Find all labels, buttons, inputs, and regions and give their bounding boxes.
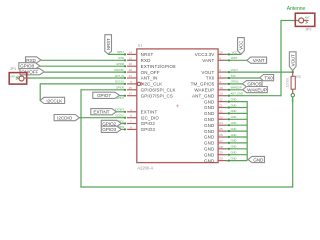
wire net GPIO2 — [121, 123, 125, 125]
svg-text:GND: GND — [204, 105, 215, 110]
svg-text:ANT_GND: ANT_GND — [192, 93, 215, 98]
svg-text:20: 20 — [219, 50, 223, 54]
pin GND (pin 22) — [218, 112, 226, 114]
svg-text:ANT_GND: ANT_GND — [231, 92, 244, 96]
wire GND pin row 1 — [226, 101, 247, 103]
svg-text:19: 19 — [219, 86, 223, 90]
pin GND (pin 26) — [218, 136, 226, 138]
pin GND (pin 25) — [218, 130, 226, 132]
svg-text:7: 7 — [130, 120, 132, 124]
svg-text:21: 21 — [219, 104, 223, 108]
pin GND (pin 23) — [218, 118, 226, 120]
junction dot — [228, 118, 230, 120]
wire net ANT vertical below R2 — [292, 97, 294, 188]
wire net WAKEUP — [226, 89, 243, 91]
junction dot — [124, 77, 126, 79]
wire net GPIO3 — [121, 128, 125, 130]
svg-text:WAKEUP: WAKEUP — [231, 86, 242, 90]
svg-text:GND: GND — [204, 129, 215, 134]
connector JP2 — [295, 13, 315, 26]
net label flag GPIO2 — [101, 120, 121, 126]
junction dot — [124, 53, 126, 55]
junction dot — [228, 89, 230, 91]
pin GND (pin 27) — [218, 142, 226, 144]
wire GND pin row 9 — [226, 148, 247, 150]
svg-text:GND: GND — [231, 156, 237, 160]
svg-text:2: 2 — [219, 68, 221, 72]
junction dot — [124, 65, 126, 67]
svg-text:GPIO7: GPIO7 — [97, 93, 111, 98]
junction dot — [228, 77, 230, 79]
pin NRST (pin 14) — [127, 53, 137, 55]
svg-text:GND: GND — [231, 151, 237, 155]
svg-text:GND: GND — [204, 123, 215, 128]
svg-text:TX0: TX0 — [231, 74, 236, 78]
svg-text:15: 15 — [128, 86, 132, 90]
net label flag I2CDIO — [54, 115, 79, 121]
svg-text:GND: GND — [231, 139, 237, 143]
junction dot — [228, 136, 230, 138]
net label flag NRST (vertical) — [105, 35, 112, 54]
junction dot — [228, 53, 230, 55]
svg-text:VOUT: VOUT — [290, 54, 295, 66]
svg-text:1: 1 — [219, 74, 221, 78]
net label flag ON/OFF — [20, 69, 44, 75]
pin GPIO6/SPI_CLK (pin 15) — [127, 89, 137, 91]
pin RXD (pin 13) — [127, 59, 137, 61]
IC U1 A2200-A GPS module body — [137, 49, 218, 163]
I2C_CLK pin clock dot — [137, 82, 140, 85]
wire net GPIO5 — [226, 83, 242, 85]
resistor R2 top stub — [292, 73, 294, 77]
wire net EXTINT — [116, 111, 125, 113]
svg-text:GPIO8: GPIO8 — [116, 62, 124, 66]
svg-text:VCC: VCC — [239, 40, 244, 50]
wire net GPIO7 — [120, 95, 126, 97]
pin TM_GPIO5 (pin 3) — [218, 83, 226, 85]
resistor R2 bottom stub — [292, 89, 294, 93]
svg-text:RXD: RXD — [26, 58, 36, 63]
net label flag TX0 — [260, 75, 274, 81]
svg-text:GPIO7/SPI_CS: GPIO7/SPI_CS — [141, 93, 173, 98]
IC origin cross — [176, 104, 179, 107]
net label flag I2CCLK — [40, 97, 64, 103]
svg-text:14: 14 — [128, 50, 132, 54]
svg-text:26: 26 — [219, 133, 223, 137]
net label flag WAKEUP — [243, 87, 268, 93]
svg-text:9: 9 — [219, 56, 221, 60]
JP1 pin 1 circle — [19, 76, 24, 81]
junction dot — [228, 59, 230, 61]
junction dot — [124, 83, 126, 85]
wire net ON/OFF — [44, 71, 125, 73]
svg-text:GND: GND — [253, 157, 264, 162]
svg-text:10000: 10000 — [286, 78, 290, 88]
pin VCC3.3V (pin 20) — [218, 53, 226, 55]
svg-text:WAKEUP: WAKEUP — [247, 88, 267, 93]
svg-text:I2C_DIO: I2C_DIO — [141, 115, 160, 120]
svg-text:R2: R2 — [296, 75, 301, 79]
svg-text:23: 23 — [219, 115, 223, 119]
pin I2C_CLK (pin 5) — [127, 83, 137, 85]
svg-text:EXTINT2/GPIO8: EXTINT2/GPIO8 — [141, 64, 176, 69]
svg-text:I2CDIO: I2CDIO — [115, 114, 124, 118]
svg-text:GND: GND — [231, 115, 237, 119]
pin GND (pin 30) — [218, 160, 226, 162]
svg-text:GND: GND — [204, 99, 215, 104]
pin GND (pin 21) — [218, 107, 226, 109]
svg-text:27: 27 — [219, 139, 223, 143]
junction dot — [228, 95, 230, 97]
svg-text:GND: GND — [204, 135, 215, 140]
svg-text:VOUT: VOUT — [231, 68, 239, 72]
svg-text:VANT: VANT — [231, 56, 238, 60]
net label flag GPIO7 — [93, 92, 120, 98]
wire net NRST — [108, 53, 125, 55]
svg-text:GND: GND — [231, 103, 237, 107]
svg-text:4: 4 — [130, 108, 132, 112]
svg-text:NRST: NRST — [106, 38, 111, 50]
svg-text:VCC: VCC — [232, 51, 238, 55]
wire net GPIO6 bottom horizontal — [80, 186, 292, 188]
wire net TX0 — [226, 77, 260, 79]
svg-text:TX0: TX0 — [206, 76, 215, 81]
svg-text:EXTINT: EXTINT — [115, 108, 125, 112]
svg-text:VANT: VANT — [202, 58, 214, 63]
junction dot — [228, 124, 230, 126]
net label flag RXD — [26, 57, 42, 63]
net label flag GPIO8 — [19, 63, 40, 69]
svg-text:GND: GND — [231, 127, 237, 131]
net label flag GND — [248, 156, 265, 162]
svg-text:VOUT: VOUT — [201, 70, 214, 75]
svg-text:I2CCLK: I2CCLK — [115, 80, 124, 84]
svg-text:GND: GND — [204, 117, 215, 122]
svg-text:22: 22 — [219, 109, 223, 113]
junction dot — [124, 111, 126, 113]
pin GPIO2 (pin 7) — [127, 123, 137, 125]
svg-text:GPIO6: GPIO6 — [116, 86, 124, 90]
wire net GPIO8 — [40, 65, 126, 67]
wire net GPIO6 vertical long — [80, 89, 82, 187]
pin GND (pin 24) — [218, 124, 226, 126]
junction dot — [228, 112, 230, 114]
svg-text:GND: GND — [231, 121, 237, 125]
wire GND bus vertical — [246, 101, 248, 161]
wire net VOUT — [226, 71, 293, 73]
svg-text:ON_OFF: ON_OFF — [141, 70, 160, 75]
junction dot — [228, 71, 230, 73]
junction dot — [228, 160, 230, 162]
svg-text:8: 8 — [130, 125, 132, 129]
svg-text:18: 18 — [128, 68, 132, 72]
pin TX0 (pin 1) — [218, 77, 226, 79]
junction circle R2 bottom — [291, 94, 294, 97]
pin I2C_DIO (pin 6) — [127, 117, 137, 119]
pin GND (pin 28) — [218, 148, 226, 150]
svg-text:U1: U1 — [138, 44, 143, 48]
wire net VCC — [226, 53, 241, 55]
svg-text:ANT: ANT — [305, 17, 310, 20]
wire GND pin row 6 — [226, 130, 247, 132]
pin GPIO7/SPI_CS (pin 17) — [127, 95, 137, 97]
wire GND pin row 5 — [226, 124, 247, 126]
svg-text:VANT: VANT — [253, 58, 265, 63]
net label flag VCC (vertical) — [238, 38, 245, 55]
svg-text:GPIO8: GPIO8 — [20, 64, 34, 69]
junction dot — [124, 59, 126, 61]
JP2 pin 1 circle — [299, 18, 304, 23]
svg-text:Antenne: Antenne — [287, 6, 306, 12]
svg-text:10: 10 — [219, 92, 223, 96]
junction dot — [124, 122, 126, 124]
pin VOUT (pin 2) — [218, 71, 226, 73]
junction dot — [124, 128, 126, 130]
svg-text:GND: GND — [231, 133, 237, 137]
svg-text:GND: GND — [204, 111, 215, 116]
pin ANT_IN (pin 11) — [127, 77, 137, 79]
pin EXTINT2/GPIO8 (pin 16) — [127, 65, 137, 67]
wire net GPIO6 horizontal to pin — [81, 89, 126, 91]
wire net ANT horizontal into JP2 — [280, 20, 298, 22]
svg-text:GND: GND — [204, 152, 215, 157]
svg-text:5: 5 — [130, 80, 132, 84]
wire GND pin row 3 — [226, 112, 247, 114]
svg-text:VCC3.3V: VCC3.3V — [195, 52, 215, 57]
junction dot — [124, 71, 126, 73]
svg-text:16: 16 — [128, 62, 132, 66]
junction dot VOUT/R2 — [292, 71, 294, 73]
net label flag GPIO3 — [101, 126, 121, 132]
svg-text:GND: GND — [204, 141, 215, 146]
xref chevron ANT_IN — [16, 77, 18, 80]
net label flag VANT — [247, 57, 267, 63]
svg-text:GPIO2: GPIO2 — [102, 121, 116, 126]
svg-text:6: 6 — [130, 114, 132, 118]
pin ANT_GND (pin 10) — [218, 95, 226, 97]
svg-text:GND: GND — [231, 109, 237, 113]
svg-text:GND: GND — [231, 145, 237, 149]
svg-text:JP2: JP2 — [305, 27, 312, 32]
wire GND pin row 8 — [226, 142, 247, 144]
svg-text:RXD: RXD — [119, 56, 125, 60]
svg-text:11: 11 — [129, 74, 132, 78]
svg-text:JP1: JP1 — [10, 66, 17, 71]
svg-text:12: 12 — [219, 98, 223, 102]
resistor R2 body — [291, 76, 295, 89]
svg-text:I2CCLK: I2CCLK — [46, 98, 63, 103]
svg-text:NRST: NRST — [117, 50, 124, 54]
svg-text:ANT_IN: ANT_IN — [115, 74, 124, 78]
svg-text:24: 24 — [219, 121, 223, 125]
svg-text:GND: GND — [231, 97, 237, 101]
pin WAKEUP (pin 19) — [218, 89, 226, 91]
svg-text:EXTINT: EXTINT — [93, 110, 109, 115]
wire GND pin row 4 — [226, 118, 247, 120]
svg-text:GPIO5: GPIO5 — [231, 80, 239, 84]
pin GPIO3 (pin 8) — [127, 128, 137, 130]
svg-text:28: 28 — [219, 145, 223, 149]
svg-text:GPIO5: GPIO5 — [247, 82, 261, 87]
net label flag GPIO5 — [242, 81, 262, 87]
svg-text:GPIO6/SPI_CLK: GPIO6/SPI_CLK — [141, 88, 176, 93]
pin ON_OFF (pin 18) — [127, 71, 137, 73]
wire net VANT — [226, 59, 247, 61]
svg-text:GPIO3: GPIO3 — [141, 127, 156, 132]
junction dot — [124, 95, 126, 97]
wire net I2CCLK horizontal — [40, 83, 125, 85]
junction dot — [228, 148, 230, 150]
svg-text:I2CDIO: I2CDIO — [57, 116, 72, 121]
svg-text:GPIO3: GPIO3 — [102, 127, 116, 132]
wire net I2CDIO — [79, 117, 125, 119]
svg-text:17: 17 — [128, 92, 132, 96]
svg-text:EXTINT: EXTINT — [141, 110, 158, 115]
svg-text:GPIO2: GPIO2 — [141, 121, 156, 126]
wire GND pin row 7 — [226, 136, 247, 138]
svg-text:ON/OFF: ON/OFF — [114, 68, 124, 72]
wire GND pin row 10 — [226, 154, 247, 156]
junction dot — [124, 117, 126, 119]
JP2 pin stub — [304, 19, 309, 21]
wire net I2CCLK vertical — [39, 83, 41, 100]
junction dot — [228, 142, 230, 144]
pin EXTINT (pin 4) — [127, 111, 137, 113]
svg-text:TX0: TX0 — [264, 76, 273, 81]
svg-text:WAKEUP: WAKEUP — [194, 88, 214, 93]
svg-text:29: 29 — [219, 151, 223, 155]
svg-text:RXD: RXD — [141, 58, 151, 63]
JP1 pin stub — [24, 77, 29, 79]
junction dot — [228, 154, 230, 156]
svg-text:TM_GPIO5: TM_GPIO5 — [191, 82, 215, 87]
junction dot — [124, 89, 126, 91]
svg-text:30: 30 — [219, 157, 223, 161]
junction dot — [228, 130, 230, 132]
junction dot — [228, 101, 230, 103]
wire GND pin row 2 — [226, 107, 247, 109]
junction dot — [228, 83, 230, 85]
net label flag VOUT (vertical) — [289, 52, 296, 71]
net label flag EXTINT — [91, 109, 116, 115]
svg-text:25: 25 — [219, 127, 223, 131]
svg-text:13: 13 — [128, 56, 132, 60]
wire net ANT horizontal from ANT_GND pin — [226, 95, 281, 97]
svg-text:I2C_CLK: I2C_CLK — [143, 82, 162, 87]
svg-text:GND: GND — [204, 158, 215, 163]
pin VANT (pin 9) — [218, 59, 226, 61]
svg-text:ANT_IN: ANT_IN — [141, 76, 158, 81]
wire GND pin row 11 — [226, 160, 247, 162]
svg-text:3: 3 — [219, 80, 221, 84]
connector JP1 — [9, 73, 27, 85]
pin GND (pin 12) — [218, 101, 226, 103]
wire net RXD — [41, 59, 126, 61]
junction dot — [228, 106, 230, 108]
svg-text:NRST: NRST — [141, 52, 154, 57]
wire net ANT vertical to JP2 — [280, 21, 282, 97]
svg-text:GND: GND — [204, 147, 215, 152]
xref chevron ANT — [306, 21, 308, 23]
wire net ANT_IN — [29, 77, 126, 79]
pin GND (pin 29) — [218, 154, 226, 156]
svg-text:A2200-A: A2200-A — [137, 166, 153, 171]
svg-text:ANT: ANT — [291, 98, 295, 104]
